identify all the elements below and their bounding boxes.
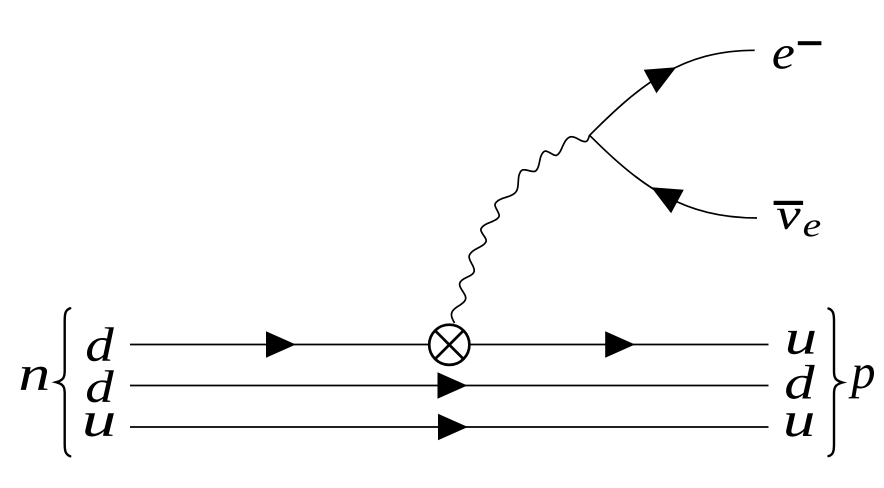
interaction vertex (circled cross) <box>429 325 469 365</box>
label d (quark line 2 left) <box>87 370 114 402</box>
arrow on quark line 2 <box>438 372 468 399</box>
right brace grouping proton quarks <box>829 309 843 457</box>
label e- (electron) <box>773 41 821 69</box>
arrow on electron line <box>644 67 677 93</box>
label nu-bar-e (electron antineutrino) <box>774 201 821 237</box>
label n (neutron) <box>21 367 48 390</box>
label d (quark line 2 right) <box>786 365 815 399</box>
arrow on quark line 1 left segment <box>266 331 296 358</box>
label p (proton) <box>849 365 875 398</box>
left brace grouping neutron quarks <box>56 308 70 456</box>
label u (quark line 3 left) <box>85 413 114 436</box>
arrow on quark line 1 right segment <box>605 331 635 358</box>
electron line <box>590 50 755 135</box>
label u (quark line 3 right) <box>786 413 813 436</box>
label d (quark line 1 left) <box>87 327 114 361</box>
quark line 1 (d quark to u quark through vertex) <box>130 344 769 346</box>
antineutrino line <box>590 135 757 218</box>
arrow on antineutrino line (reversed, antiparticle) <box>651 187 684 213</box>
label u (quark line 1 right) <box>788 331 815 354</box>
quark line 2 (d quark) <box>130 385 769 387</box>
quark line 3 (u quark) <box>130 426 769 428</box>
arrow on quark line 3 <box>438 414 468 441</box>
W boson wavy line <box>452 135 590 323</box>
